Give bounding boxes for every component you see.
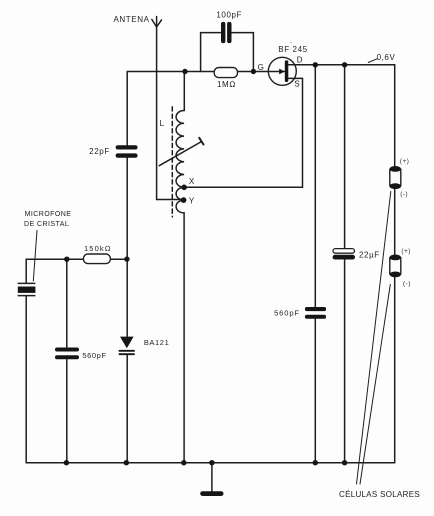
svg-text:L: L (160, 119, 165, 128)
node bottom rail j1 (64, 460, 69, 465)
node bottom rail j6 (342, 460, 347, 465)
capacitor C 22uF electrolytic plates (333, 249, 355, 254)
svg-text:Y: Y (189, 196, 195, 205)
solar cell B2 (390, 255, 402, 278)
node drain rail junction 2 (342, 62, 347, 67)
wire 560pF-left branch (66, 259, 68, 463)
svg-text:1MΩ: 1MΩ (217, 80, 236, 89)
node bottom rail j4 ground (209, 460, 214, 465)
wire 560pF-right branch (314, 65, 316, 463)
pointer solar cell 1 (357, 192, 391, 485)
microphone crystal symbol (18, 282, 36, 284)
svg-text:MICROFONE: MICROFONE (25, 211, 72, 218)
transistor channel bar (285, 60, 289, 82)
svg-text:D: D (297, 56, 303, 65)
node mic row left junction (64, 257, 69, 262)
transistor Q1 BF245 circle (268, 57, 296, 85)
wire antenna bottom to Y (157, 199, 184, 201)
capacitor C 560pF right plates (305, 307, 326, 311)
svg-text:X: X (189, 177, 195, 186)
node bottom rail j3 (181, 460, 186, 465)
svg-text:DE CRISTAL: DE CRISTAL (24, 221, 69, 228)
node X (181, 185, 187, 191)
svg-text:560pF: 560pF (82, 351, 106, 360)
pointer microphone label (33, 231, 37, 282)
capacitor C 100pF plates (221, 22, 225, 43)
node gate-left junction (182, 69, 187, 74)
svg-text:22pF: 22pF (89, 147, 110, 156)
coil core dashed line (171, 107, 173, 217)
wire 22pF branch upper (126, 72, 128, 146)
svg-text:BA121: BA121 (144, 338, 170, 347)
node G junction (251, 69, 256, 74)
resistor R 1M (214, 68, 237, 78)
wire ground stub (211, 463, 213, 491)
transistor gate arrow (279, 69, 284, 75)
wire right rail lower (394, 277, 396, 463)
svg-text:560pF: 560pF (274, 308, 300, 317)
wire drain rail (288, 64, 395, 66)
svg-text:(+): (+) (401, 248, 411, 255)
svg-text:22µF: 22µF (359, 250, 380, 259)
svg-text:(+): (+) (400, 158, 410, 165)
wire 100pF loop right (231, 33, 253, 72)
wire 22pF branch lower (126, 158, 128, 259)
wire bottom rail (26, 462, 395, 464)
capacitor C 22pF plates (116, 145, 138, 149)
wire right rail upper (394, 65, 396, 167)
wire coil bottom (183, 213, 185, 463)
wire coil top (183, 72, 185, 111)
node mic row right junction (124, 256, 129, 261)
svg-text:(-): (-) (403, 281, 411, 288)
svg-text:100pF: 100pF (216, 10, 242, 19)
svg-text:S: S (294, 80, 300, 89)
inductor L1 coil (176, 111, 184, 213)
svg-text:BF 245: BF 245 (278, 45, 307, 54)
solar cell B1 (390, 166, 402, 189)
node Y (181, 197, 187, 203)
node drain rail junction 1 (313, 62, 318, 67)
wire right rail mid (394, 188, 396, 255)
svg-text:ANTENA: ANTENA (113, 15, 149, 24)
node bottom rail j2 (124, 460, 129, 465)
tuning arrow (159, 142, 201, 166)
wire left riser upper / mic top (26, 259, 127, 283)
wire gate row (127, 71, 285, 73)
svg-text:150kΩ: 150kΩ (84, 244, 112, 253)
svg-text:CÉLULAS SOLARES: CÉLULAS SOLARES (339, 490, 420, 499)
ground (200, 491, 223, 496)
pointer 0,6V (368, 59, 377, 63)
antenna (156, 17, 158, 200)
diode D1 BA121 varicap (120, 337, 134, 349)
resistor R 150k (83, 254, 110, 264)
svg-text:(-): (-) (400, 191, 408, 198)
wire left riser lower (25, 296, 27, 463)
capacitor C 560pF left plates (55, 348, 79, 352)
svg-text:G: G (258, 63, 265, 72)
wire 22uF branch (344, 65, 346, 463)
node bottom rail j5 (313, 460, 318, 465)
svg-text:0,6V: 0,6V (377, 53, 396, 62)
wire BA121 branch (126, 259, 128, 463)
wire X to source (184, 78, 302, 187)
wire 100pF loop left (201, 33, 221, 72)
pointer solar cell 2 (360, 285, 390, 485)
